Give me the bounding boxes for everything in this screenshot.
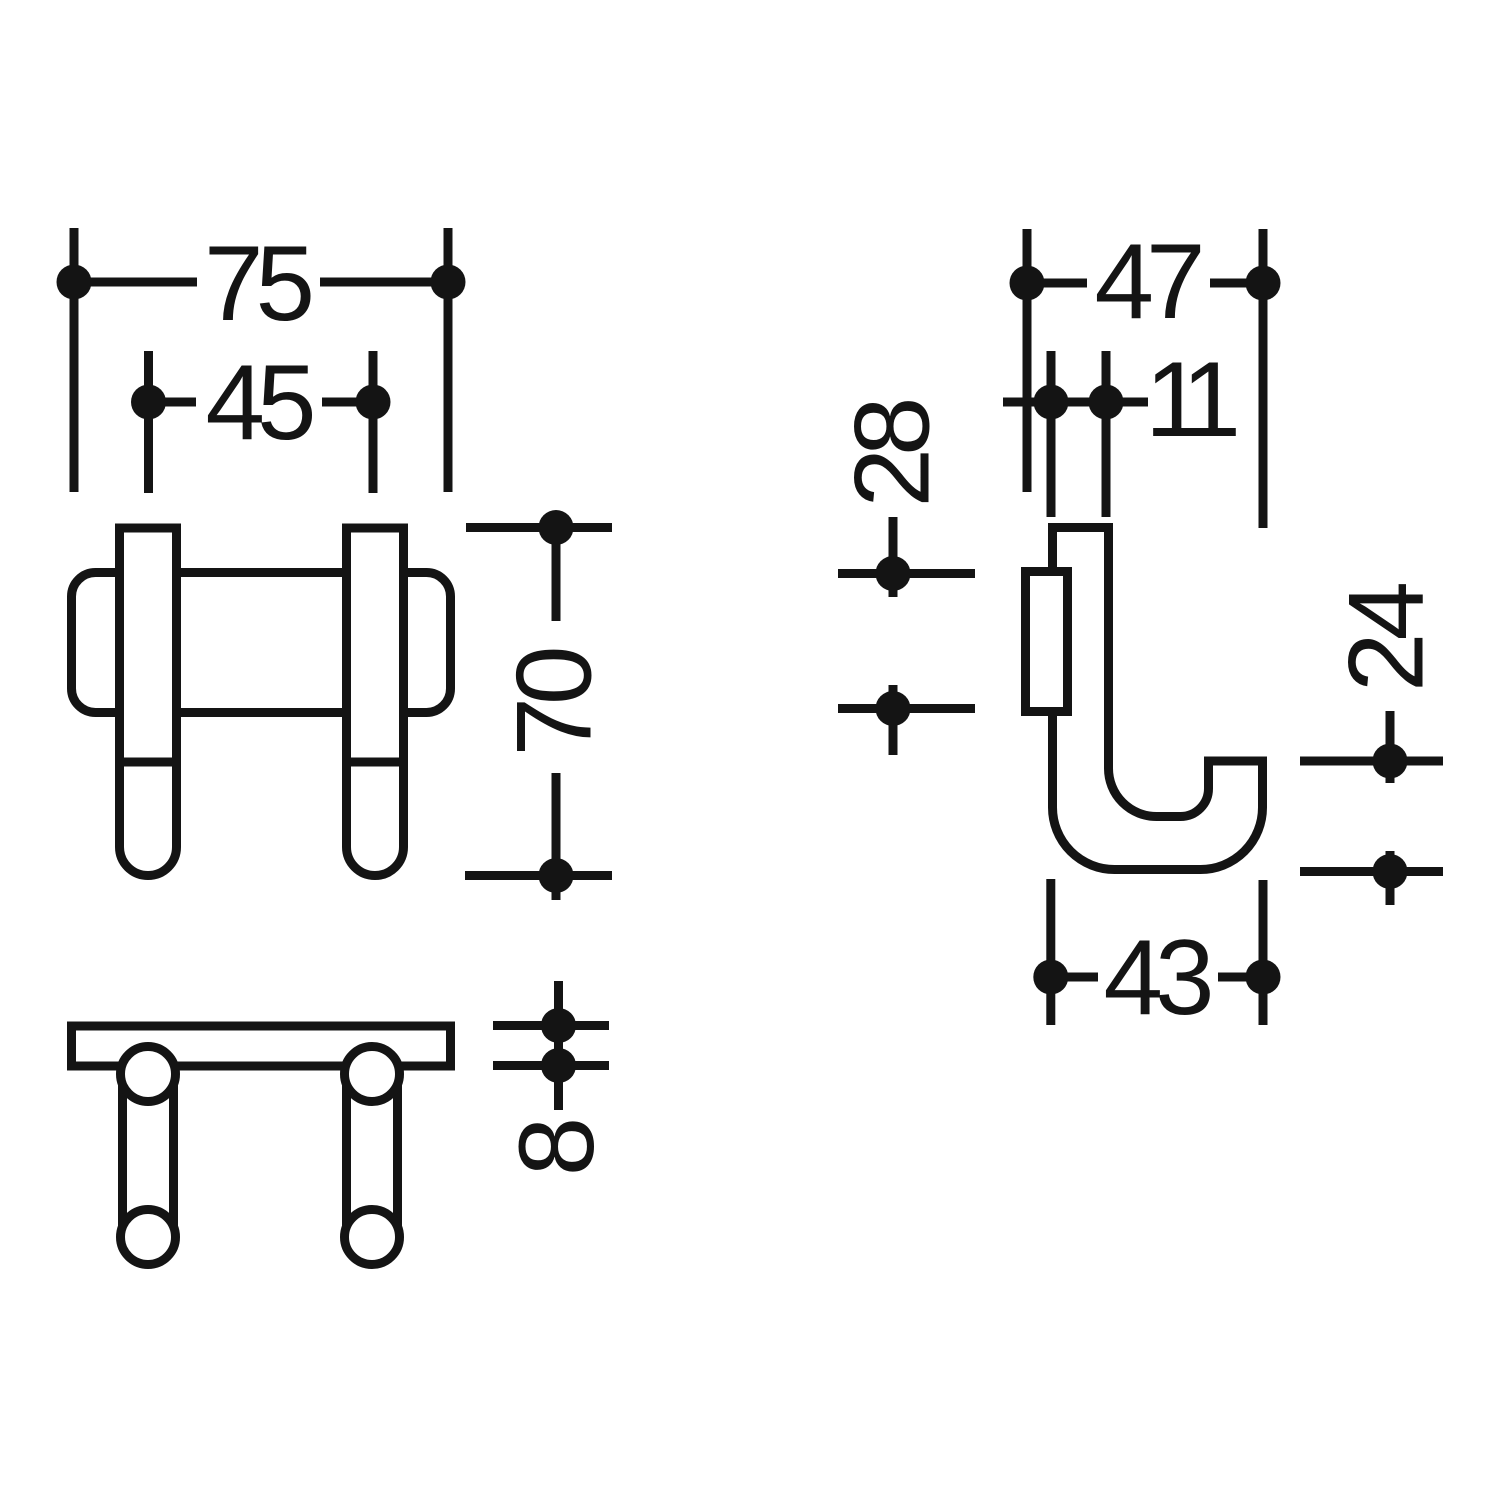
dim 47 extension line left [1023, 229, 1032, 492]
wall plate side view [1026, 572, 1068, 712]
left hook strip front view [120, 528, 177, 876]
dim 24 dot bottom [1373, 854, 1408, 889]
mounting bar top view [72, 1026, 451, 1066]
dim 47 dot left [1010, 266, 1045, 301]
dim 8 top reference line [493, 1021, 609, 1030]
dim 8 dot bottom [541, 1048, 576, 1083]
dim 43 dot left [1033, 960, 1068, 995]
dim 24 dimension line [1386, 711, 1395, 905]
left capsule circle lower [121, 1210, 176, 1265]
left hook divider line [115, 758, 181, 767]
svg-text:8: 8 [496, 1121, 616, 1176]
dim 45 dot left [131, 385, 166, 420]
dim 28 top reference line [838, 569, 975, 578]
dim 75 extension line right [444, 228, 453, 492]
dim 24 bottom reference line [1300, 867, 1443, 876]
svg-text:43: 43 [1103, 917, 1210, 1037]
svg-text:28: 28 [831, 401, 951, 508]
svg-text:24: 24 [1326, 584, 1446, 693]
dim 28 dimension line [889, 517, 898, 755]
dim 28 dot bottom [876, 691, 911, 726]
dim 75 extension line left [70, 228, 79, 492]
dim 43 extension line right [1259, 880, 1268, 1025]
dim 70 dot top [539, 510, 574, 545]
dim 43 dot right [1246, 960, 1281, 995]
dim 70 bottom reference line [465, 871, 612, 880]
dim 75 dot left [57, 265, 92, 300]
svg-text:75: 75 [204, 223, 312, 343]
dim 45 dot right [356, 385, 391, 420]
left hook capsule top view [123, 1049, 174, 1263]
dim 11 extension line left [1047, 351, 1056, 517]
svg-text:45: 45 [205, 342, 313, 462]
dim 47 dot right [1246, 266, 1281, 301]
svg-text:70: 70 [494, 649, 614, 757]
svg-text:11: 11 [1145, 339, 1237, 459]
right capsule circle upper [345, 1047, 400, 1102]
dim 43 extension line left [1046, 879, 1055, 1025]
dim 70 dot bottom [539, 858, 574, 893]
dim 8 dot top [541, 1008, 576, 1043]
dim 11 extension line right [1102, 351, 1111, 517]
dim 24 dot top [1373, 744, 1408, 779]
right hook divider line [342, 758, 408, 767]
dim 45 dimension line [149, 398, 374, 407]
dim 75 dimension line [74, 278, 448, 287]
dim 47 extension line right [1259, 229, 1268, 528]
right hook capsule top view [347, 1049, 398, 1263]
dim 28 dot top [876, 556, 911, 591]
right hook strip front view [347, 528, 404, 876]
dim 8 bottom reference line [493, 1061, 609, 1070]
dim 11 dot left [1034, 385, 1069, 420]
dim 45 extension line left [144, 351, 153, 493]
dim 28 bottom reference line [838, 704, 975, 713]
right capsule circle lower [345, 1210, 400, 1265]
dim 70 top reference line [466, 523, 612, 532]
dim 47 dimension line [1027, 279, 1263, 288]
dim 24 top reference line [1300, 757, 1443, 766]
dim 70 dimension line [552, 528, 561, 901]
dim 8 dimension line [554, 981, 563, 1110]
left capsule circle upper [121, 1047, 176, 1102]
svg-text:47: 47 [1094, 221, 1201, 341]
dim 43 dimension line [1051, 973, 1263, 982]
backplate front view [72, 573, 451, 713]
dim 11 dot right [1089, 385, 1124, 420]
dim 45 extension line right [369, 351, 378, 493]
dim 75 dot right [431, 265, 466, 300]
dim 11 dimension line [1003, 398, 1148, 407]
J-hook side view [1053, 528, 1263, 870]
